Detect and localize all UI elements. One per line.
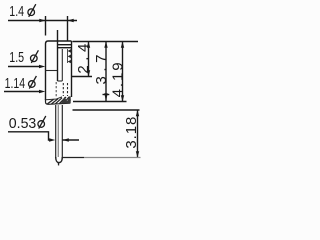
svg-text:3.7: 3.7 (93, 55, 110, 85)
svg-text:1.4: 1.4 (9, 3, 24, 20)
svg-text:3.18: 3.18 (123, 117, 140, 149)
svg-text:1.14: 1.14 (5, 75, 26, 92)
svg-text:1.5: 1.5 (9, 49, 24, 66)
svg-text:2.4: 2.4 (75, 44, 92, 74)
svg-text:0.53: 0.53 (9, 115, 37, 132)
svg-text:4.19: 4.19 (110, 62, 127, 97)
